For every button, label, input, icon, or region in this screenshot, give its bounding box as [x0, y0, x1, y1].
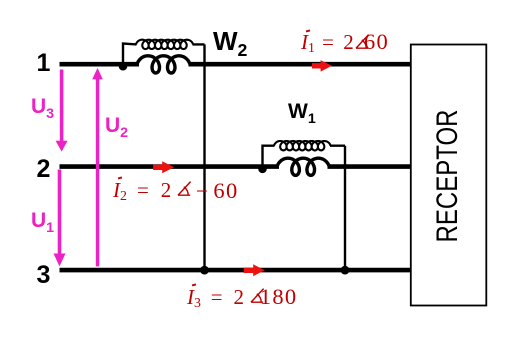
- voltage arrow U2 (line 3 to line 1, upward): [92, 68, 103, 267]
- wire line 1 (phase 1, left segment): [60, 62, 140, 67]
- wattmeter W2 node dot on line 3: [200, 266, 209, 275]
- label voltage U1: [31, 209, 54, 236]
- label voltage U2: [105, 114, 128, 141]
- wattmeter W1 voltage coil: [274, 141, 331, 150]
- receptor box: [411, 45, 487, 306]
- label current equation I1: angle symbol: [355, 34, 370, 49]
- label current equation I1: value 60: [364, 29, 389, 55]
- label current equation I2 = 2 angle minus 60: prefix: [113, 178, 171, 204]
- wire line 1 (phase 1, right segment to receptor): [189, 62, 412, 67]
- wattmeter W2 node dot on line 1: [119, 62, 128, 71]
- wattmeter W1 current coil on line 2: [277, 158, 329, 175]
- label phase 2: [37, 155, 51, 184]
- wattmeter W2 voltage coil: [136, 40, 193, 49]
- label current equation I2: angle symbol: [177, 181, 192, 196]
- label current equation I1 = 2 angle 60: prefix: [301, 30, 354, 56]
- current arrow I2 on line 2: [153, 161, 174, 173]
- wattmeter W2 return wire down to line 3: [203, 44, 205, 270]
- voltage arrow U1 (line 2 to line 3, downward): [54, 170, 66, 267]
- wattmeter W2 current coil on line 1: [137, 56, 190, 73]
- label voltage U3: [31, 95, 54, 122]
- wattmeter W1 node dot on line 2: [258, 165, 267, 174]
- label wattmeter W2: [213, 26, 247, 61]
- label wattmeter W1: [288, 100, 316, 127]
- label phase 3: [37, 261, 51, 290]
- label current equation I3: angle symbol: [250, 288, 265, 303]
- wattmeter W1 return wire down to line 3: [344, 146, 346, 270]
- label current equation I2: minus 60: [196, 178, 239, 204]
- wire line 2 (phase 2, left segment): [60, 164, 280, 169]
- label current equation I3: value 180: [260, 284, 298, 310]
- label phase 1: [37, 49, 51, 78]
- wire line 2 (phase 2, right segment to receptor): [328, 164, 412, 169]
- wattmeter W1 node dot on line 3: [341, 266, 350, 275]
- voltage arrow U3 (line 1 to line 2, downward): [56, 70, 68, 152]
- current arrow I1 on line 1: [312, 60, 332, 72]
- label receptor (rotated): [431, 92, 465, 258]
- current arrow I3 on line 3: [244, 264, 265, 276]
- label current equation I3 = 2 angle 180: prefix: [187, 285, 244, 311]
- wattmeter W1 voltage-coil wire (up from line 2, across top): [263, 146, 346, 167]
- wire line 3 (phase 3, to receptor): [60, 268, 412, 273]
- wattmeter W2 voltage-coil wire (up from line 1, across top): [123, 44, 205, 65]
